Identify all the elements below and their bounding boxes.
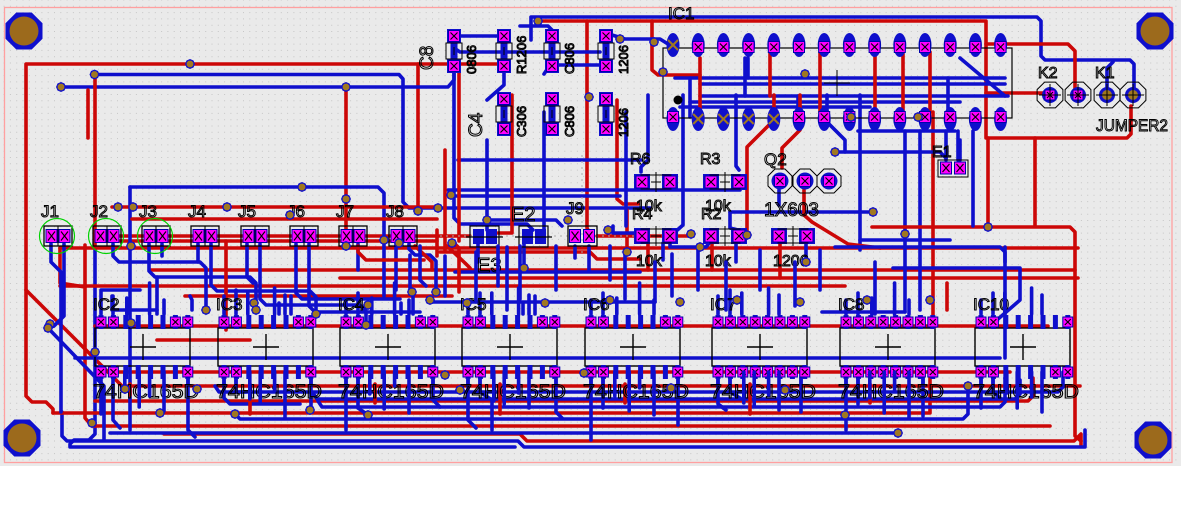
svg-text:C806: C806 (562, 43, 577, 74)
svg-text:R4: R4 (632, 206, 653, 223)
svg-text:J7: J7 (336, 202, 354, 221)
svg-text:IC4: IC4 (338, 295, 364, 314)
svg-text:C4: C4 (466, 112, 487, 137)
svg-text:74HC165D: 74HC165D (460, 382, 566, 403)
svg-text:C306: C306 (514, 106, 529, 137)
svg-text:IC3: IC3 (216, 295, 242, 314)
svg-text:IC8: IC8 (838, 295, 864, 314)
svg-text:74HC165D: 74HC165D (973, 382, 1079, 403)
svg-text:JUMPER2: JUMPER2 (1096, 116, 1168, 135)
svg-text:10k: 10k (636, 253, 663, 270)
svg-text:K1: K1 (1095, 65, 1115, 82)
svg-text:IC7: IC7 (710, 295, 736, 314)
svg-text:1206: 1206 (616, 108, 631, 137)
svg-text:J4: J4 (188, 202, 206, 221)
svg-text:IC6: IC6 (583, 295, 609, 314)
svg-text:J2: J2 (90, 202, 108, 221)
svg-text:J1: J1 (41, 202, 59, 221)
svg-text:R3: R3 (700, 151, 721, 168)
svg-text:0806: 0806 (464, 45, 479, 74)
svg-text:R2: R2 (701, 206, 722, 223)
svg-text:1X603: 1X603 (764, 200, 819, 221)
svg-text:J8: J8 (386, 202, 404, 221)
svg-text:E1: E1 (932, 144, 952, 161)
svg-text:J3: J3 (139, 202, 157, 221)
svg-text:R6: R6 (630, 151, 651, 168)
svg-text:1206: 1206 (616, 45, 631, 74)
svg-text:J5: J5 (238, 202, 256, 221)
svg-text:C806: C806 (562, 106, 577, 137)
svg-text:IC2: IC2 (93, 295, 119, 314)
svg-text:74HC165D: 74HC165D (93, 382, 199, 403)
svg-text:74HC165D: 74HC165D (838, 382, 944, 403)
svg-text:74HC165D: 74HC165D (216, 382, 322, 403)
svg-text:74HC165D: 74HC165D (338, 382, 444, 403)
svg-text:R1206: R1206 (514, 36, 529, 74)
svg-text:IC1: IC1 (668, 4, 694, 23)
svg-text:J9: J9 (566, 199, 584, 218)
svg-text:Q2: Q2 (764, 150, 787, 169)
svg-text:E2: E2 (511, 204, 535, 226)
svg-text:K2: K2 (1038, 65, 1058, 82)
svg-text:C8: C8 (417, 46, 438, 70)
svg-text:74HC165D: 74HC165D (710, 382, 816, 403)
